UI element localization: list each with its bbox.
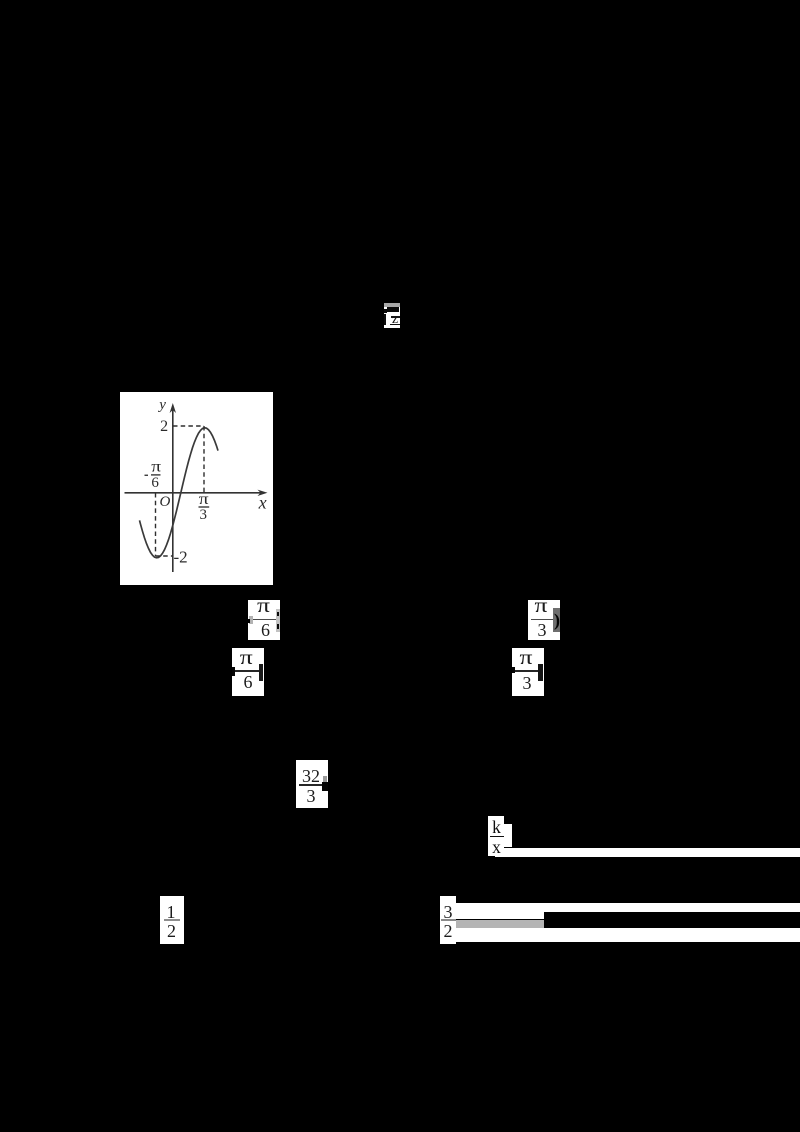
y-axis [172,408,174,572]
svg-text:π: π [199,490,209,508]
svg-text:3: 3 [200,507,208,523]
equation image: 1/2 fraction [160,896,184,944]
equation image: 32/3 fraction [296,760,328,808]
equation image: Z (integers) symbol box [384,303,400,328]
sine curve [140,428,219,558]
-pi/6 mini fraction [145,475,149,476]
equation image: 3/2 fraction with strips [440,896,456,944]
svg-text:x: x [258,493,267,513]
svg-text:6: 6 [151,475,159,491]
svg-text:y: y [157,397,166,413]
equation image: pi/3 fraction (row 1) [528,600,560,640]
equation image: pi/6 fraction (row 1) [248,600,280,640]
graph image: sine curve figure [120,392,273,585]
x-axis [125,492,263,494]
svg-text:-2: -2 [174,548,188,567]
svg-text:O: O [160,494,171,510]
equation image: pi/6 fraction (row 2) [232,648,264,696]
dashed guides [173,425,204,427]
equation image: k/x fraction with long strip [488,816,504,856]
equation image: pi/3 fraction (row 2) [512,648,544,696]
svg-text:π: π [151,457,161,475]
svg-text:2: 2 [160,418,168,435]
